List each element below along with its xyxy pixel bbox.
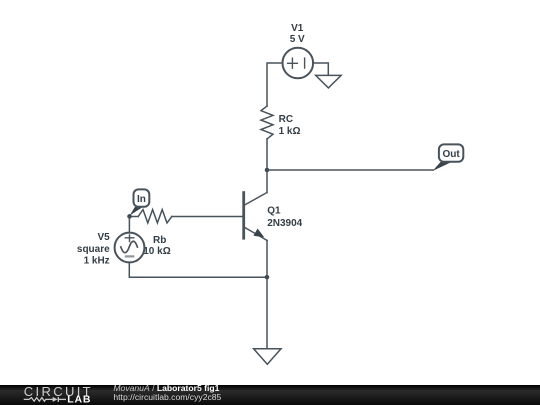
ground at V1 <box>316 75 341 88</box>
flag In <box>130 189 150 215</box>
transistor Q1 <box>244 193 268 241</box>
CircuitLab logo <box>0 385 110 405</box>
wire collector node down to Q1 <box>266 170 268 193</box>
wire V1 right to ground <box>313 63 328 75</box>
wire Rb to base node <box>130 216 139 218</box>
flag Out <box>433 144 464 171</box>
svg-text:Rb: Rb <box>153 235 166 246</box>
svg-text:LAB: LAB <box>67 394 91 405</box>
wire V1 left to RC <box>267 63 283 106</box>
resistor RC <box>261 106 273 139</box>
node emitter <box>265 275 270 280</box>
svg-text:square: square <box>77 244 110 255</box>
resistor Rb <box>138 210 172 223</box>
wire collector node to Out <box>267 169 433 171</box>
wire base to Rb <box>172 216 244 218</box>
wire RC to collector node <box>266 139 268 170</box>
wire V5 bottom to emitter node <box>129 262 267 277</box>
svg-text:V5: V5 <box>97 232 110 243</box>
svg-text:Q1: Q1 <box>267 205 281 216</box>
svg-text:RC: RC <box>279 114 293 125</box>
svg-text:5 V: 5 V <box>290 34 305 45</box>
wire base node to V5 <box>128 217 130 233</box>
footer url <box>113 393 221 402</box>
svg-text:2N3904: 2N3904 <box>267 218 302 229</box>
svg-text:Out: Out <box>442 149 460 160</box>
svg-text:In: In <box>137 194 146 205</box>
svg-text:1 kHz: 1 kHz <box>84 256 110 267</box>
node collector <box>265 168 270 173</box>
node base <box>127 214 132 219</box>
footer title <box>113 384 219 393</box>
voltage source V1 <box>283 48 314 79</box>
ground bottom <box>254 349 281 364</box>
svg-text:10 kΩ: 10 kΩ <box>143 246 170 257</box>
wire emitter down <box>266 241 268 278</box>
svg-text:1 kΩ: 1 kΩ <box>279 126 301 137</box>
footer bar <box>0 385 540 405</box>
svg-text:V1: V1 <box>291 23 304 34</box>
wire emitter node to ground <box>266 277 268 348</box>
voltage source V5 <box>115 233 145 263</box>
